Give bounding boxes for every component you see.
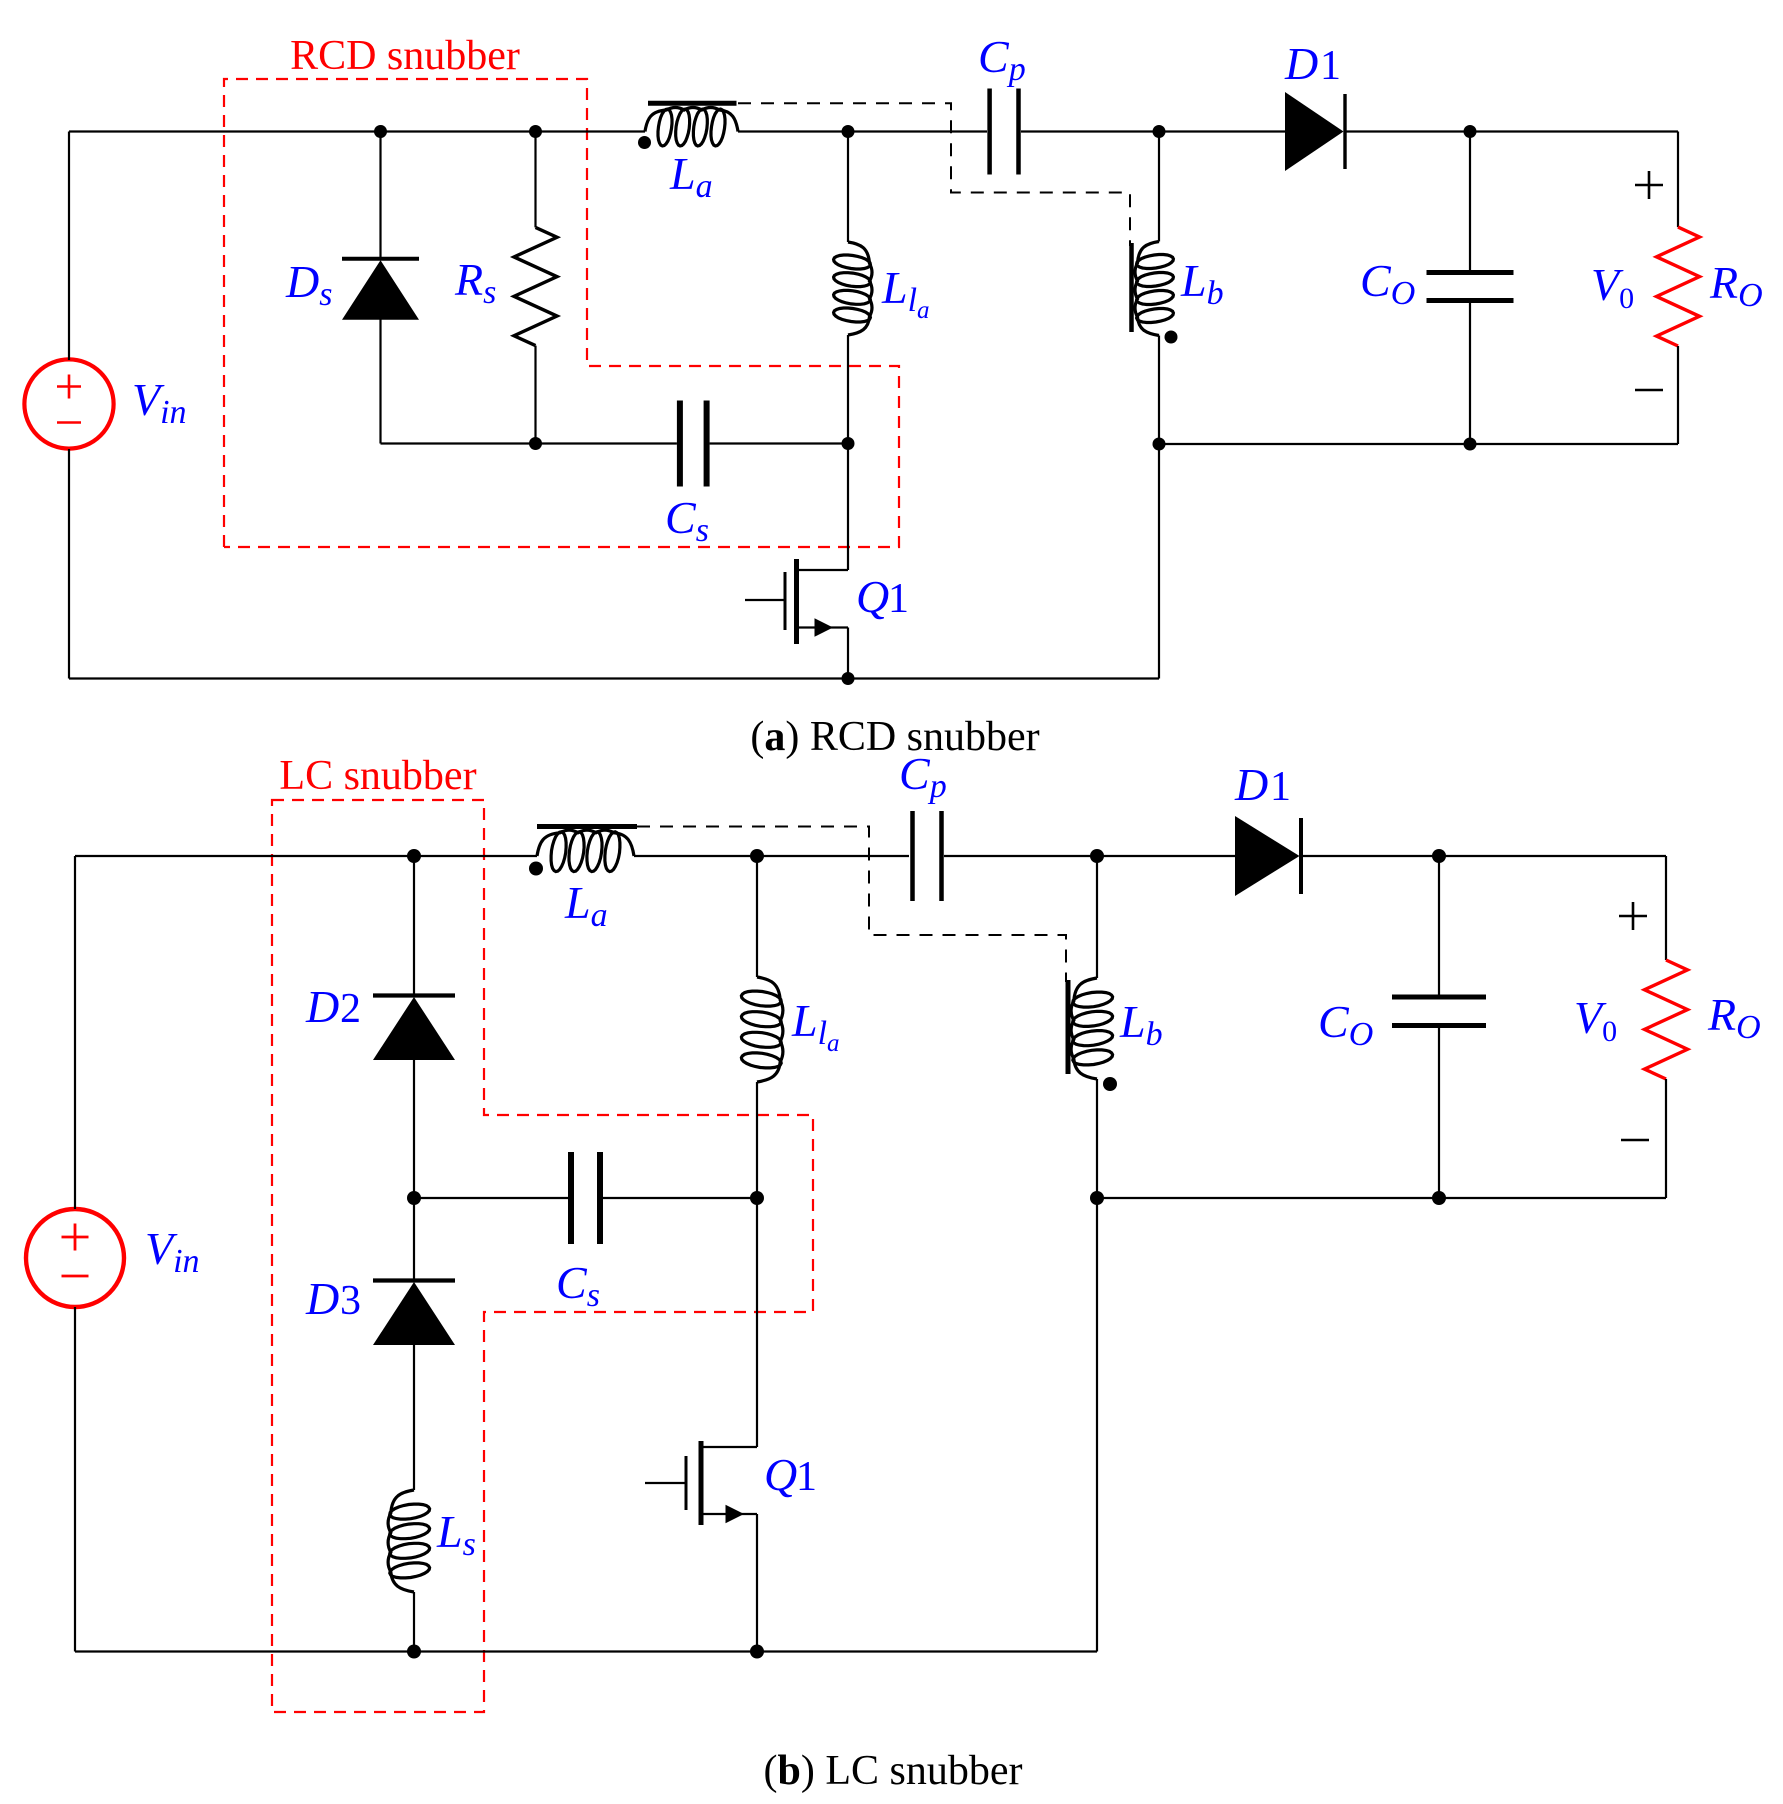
node lower Co a — [1464, 438, 1477, 451]
node top Lb b — [1090, 849, 1104, 863]
inductor Ls — [388, 1490, 430, 1652]
wire top right of Cp b — [944, 855, 1235, 857]
svg-text:LC snubber: LC snubber — [279, 753, 476, 799]
label Q1 a — [856, 571, 909, 622]
inductor La b — [537, 830, 634, 872]
resistor Ro b — [1645, 856, 1688, 1198]
label minus a — [1635, 389, 1663, 392]
svg-text:(b) LC snubber: (b) LC snubber — [764, 1748, 1023, 1794]
inductor Lla b — [741, 856, 783, 1198]
label Ro b — [1707, 989, 1761, 1046]
svg-text:D: D — [1284, 38, 1318, 89]
wire Cs b — [414, 1197, 757, 1199]
wire lower right rail a — [1159, 443, 1678, 445]
voltage source Vin — [24, 359, 113, 448]
wire lower right rail b — [1097, 1197, 1666, 1199]
wire bottom rail b — [75, 1650, 1097, 1652]
svg-text:RCD snubber: RCD snubber — [290, 33, 520, 79]
label Lb b — [1119, 996, 1163, 1053]
transistor Q1 b — [645, 1198, 757, 1652]
wire snubber bottom a — [381, 442, 849, 444]
wire left rail top b — [74, 856, 76, 1209]
label Cs a — [665, 492, 709, 549]
inductor Lb b — [1071, 856, 1112, 1198]
label D2 — [305, 981, 361, 1032]
svg-text:1: 1 — [888, 576, 909, 622]
capacitor Cs a — [680, 401, 707, 487]
label D3 — [305, 1273, 361, 1324]
label plus b — [1619, 902, 1647, 930]
label Lla a — [881, 262, 930, 324]
node top Lla b — [750, 849, 764, 863]
label Co b — [1318, 996, 1373, 1053]
svg-text:1: 1 — [796, 1454, 817, 1500]
node lower Lb b — [1090, 1191, 1104, 1205]
wire top right of Cp a — [1021, 130, 1285, 132]
label La a — [669, 148, 713, 205]
wire bottom rail a — [69, 677, 1159, 679]
caption b — [764, 1748, 1023, 1794]
node Cs right b — [750, 1191, 764, 1205]
inductor Lb a core bar — [1129, 243, 1134, 332]
inductor Lb a — [1135, 132, 1173, 445]
wire left rail bottom b — [74, 1307, 76, 1652]
node top Ds — [374, 125, 387, 138]
node top Lla a — [842, 125, 855, 138]
label Q1 b — [764, 1449, 817, 1500]
inductor Lla a — [834, 132, 872, 444]
svg-text:D: D — [305, 1273, 339, 1324]
node top Co b — [1432, 849, 1446, 863]
label Lb a — [1180, 255, 1224, 312]
svg-text:Q: Q — [856, 571, 889, 622]
diode D1 b — [1235, 816, 1666, 896]
node top Lb a — [1153, 125, 1166, 138]
resistor Ro a — [1657, 132, 1700, 445]
svg-text:D: D — [1234, 759, 1268, 810]
inductor La a — [645, 108, 738, 146]
wire right mid vertical b — [1096, 1198, 1098, 1652]
wire left rail bottom a — [68, 449, 70, 679]
label Ro a — [1709, 257, 1763, 314]
label D1 b — [1234, 759, 1291, 810]
node lower Co b — [1432, 1191, 1446, 1205]
capacitor Co a — [1427, 132, 1514, 445]
label minus b — [1621, 1139, 1649, 1142]
node lower Lb a — [1153, 438, 1166, 451]
label Cp b — [899, 748, 947, 805]
svg-text:D: D — [305, 981, 339, 1032]
node source Q1 a — [842, 672, 855, 685]
label LC snubber — [279, 753, 476, 799]
wire top mid a — [738, 130, 987, 132]
phase dot La a — [638, 136, 651, 149]
label Lla b — [791, 995, 840, 1057]
svg-text:(a) RCD snubber: (a) RCD snubber — [750, 714, 1039, 760]
label Cp a — [978, 31, 1026, 88]
diode D1 a — [1285, 92, 1678, 171]
phase dot Lb a — [1165, 331, 1178, 344]
wire top rail a — [69, 130, 645, 132]
node top D2 — [407, 849, 421, 863]
capacitor Cp b — [913, 811, 942, 901]
svg-text:3: 3 — [340, 1278, 361, 1324]
label Ls — [436, 1506, 476, 1563]
label Ds — [285, 256, 332, 313]
transistor Q1 a — [745, 444, 848, 679]
inductor La a core bar — [648, 101, 737, 106]
label Cs b — [556, 1257, 600, 1314]
wire right mid vertical a — [1158, 444, 1160, 679]
voltage source Vin b — [26, 1209, 124, 1307]
black dashed coupling b — [637, 827, 1066, 983]
node top Co a — [1464, 125, 1477, 138]
wire top rail b — [75, 855, 537, 857]
node Cs left b — [407, 1191, 421, 1205]
label Vin b — [145, 1223, 200, 1280]
red dashed box RCD snubber — [224, 79, 899, 547]
node snubber Lla bottom — [842, 437, 855, 450]
label RCD snubber — [290, 33, 520, 79]
resistor Rs — [514, 132, 557, 444]
diode D3 — [373, 1198, 455, 1490]
capacitor Cs b — [571, 1152, 600, 1244]
label Vin — [132, 374, 187, 431]
diode D2 — [373, 856, 455, 1198]
svg-text:2: 2 — [340, 986, 361, 1032]
label Co a — [1360, 255, 1415, 312]
inductor La b core bar — [537, 824, 637, 829]
caption a — [750, 714, 1039, 760]
label Rs — [454, 254, 496, 311]
inductor Lb b core bar — [1066, 980, 1071, 1074]
capacitor Co b — [1392, 856, 1486, 1198]
label V0 a — [1591, 259, 1634, 315]
black dashed coupling a — [738, 103, 1130, 246]
node snubber Rs bottom — [529, 437, 542, 450]
capacitor Cp a — [990, 89, 1019, 175]
wire top mid b — [634, 855, 909, 857]
wire left rail top a — [68, 132, 70, 361]
node top Rs — [529, 125, 542, 138]
svg-text:Q: Q — [764, 1449, 797, 1500]
phase dot Lb b — [1103, 1077, 1117, 1091]
svg-text:1: 1 — [1320, 43, 1341, 89]
node source Q1 b — [750, 1645, 764, 1659]
svg-text:1: 1 — [1270, 764, 1291, 810]
phase dot La b — [529, 862, 543, 876]
node Ls bottom — [407, 1645, 421, 1659]
diode Ds — [342, 132, 419, 444]
label D1 a — [1284, 38, 1341, 89]
red dashed box LC snubber — [272, 800, 813, 1712]
label V0 b — [1574, 992, 1617, 1048]
label plus a — [1635, 171, 1663, 199]
label La b — [564, 877, 608, 934]
